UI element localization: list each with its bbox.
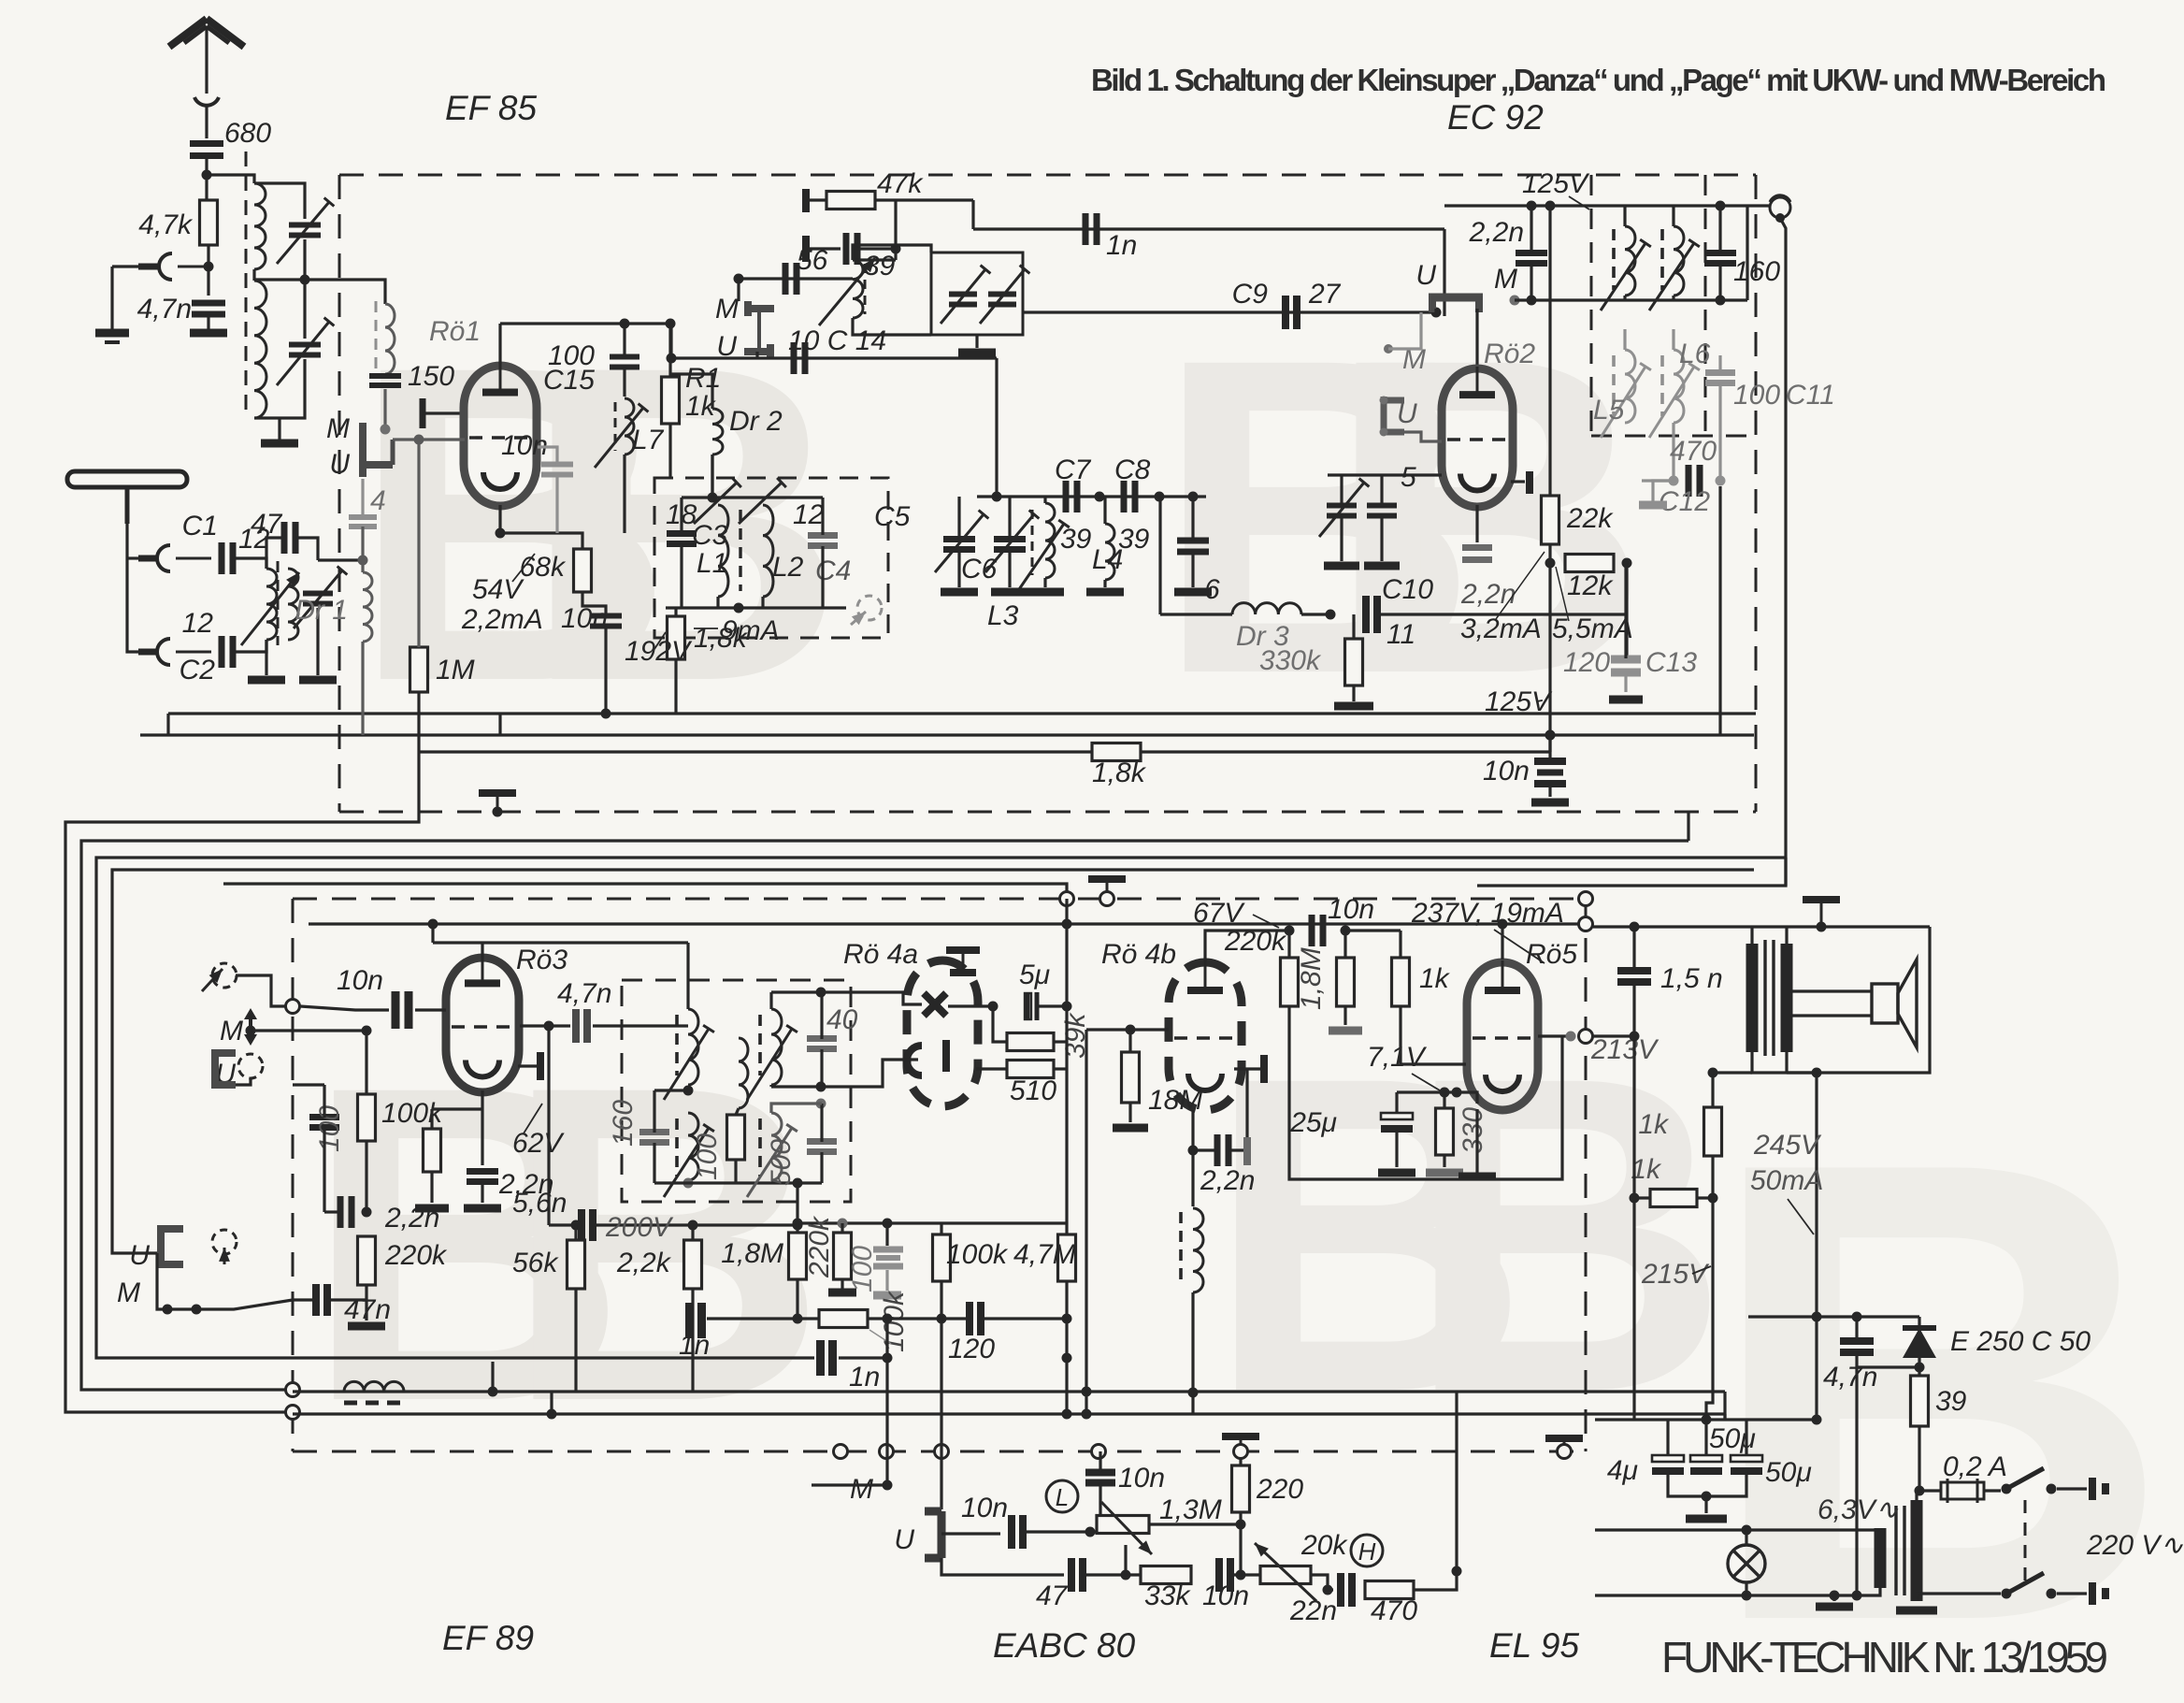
junction screen feed [428,919,438,930]
ground 10n psu [1531,799,1569,807]
resistor 33k [1141,1566,1191,1584]
wire cap5 up [1380,475,1383,505]
svg-text:Bild 1. Schaltung der Kleinsup: Bild 1. Schaltung der Kleinsuper „Danza“… [1091,63,2106,97]
wire fuse right [1984,1489,2001,1492]
wire M lower [157,1253,293,1309]
heater rail with 1,8k [419,750,1550,753]
resistor 1M grid leak [410,647,428,692]
resistor 100 IF2 [727,1115,745,1160]
tube Roe3 EF89 [446,956,519,1092]
wire res100 IF2 bottom [734,1160,737,1183]
junction lamp return [1742,1591,1752,1601]
junction cap bank gnd [1702,1492,1712,1502]
M U band contact [363,423,393,477]
IF coil core dashed upper right [1660,229,1664,290]
ground osc grid cap [1324,562,1359,570]
wire cap160 bottom [1718,264,1721,300]
terminal bottom f [1558,1445,1572,1459]
capacitor 10n tone [1219,1558,1230,1592]
junction 1,5n bottom [1630,1032,1640,1042]
svg-text:510: 510 [1010,1075,1056,1106]
wire 1,8M top [1343,931,1346,958]
capacitor 47n [316,1284,327,1316]
pointer 3,2mA [1496,552,1545,619]
chassis tie above transformer [1803,900,1840,926]
jack dashed circle upper [212,963,237,988]
junction fuse node [1915,1486,1925,1496]
connector arc C1 [138,545,211,571]
wire 50u b stub [1745,1420,1747,1455]
Roe4b cath coil feed [1191,1110,1194,1206]
wire grid2 bar to tube [423,411,465,414]
svg-text:C2: C2 [180,655,216,686]
wire 56k bottom [574,1289,577,1392]
tone feedback up [1455,1414,1458,1571]
trimmer arrow upper [277,197,334,264]
svg-text:20k: 20k [1300,1530,1348,1561]
wire C12 left stub [1642,479,1674,482]
IF2 coil lower [688,1113,698,1180]
wire 56 line [739,277,853,280]
capacitor 160 [1704,253,1736,264]
svg-text:4,7n: 4,7n [557,978,611,1009]
svg-text:120: 120 [948,1334,995,1364]
wire 5,6n left [549,1223,582,1226]
osc trimmer arrow A [941,266,990,324]
svg-text:200V: 200V [605,1212,674,1243]
heater long rail [293,1412,1725,1415]
junction tone a [1121,1570,1131,1580]
svg-text:470: 470 [1371,1595,1417,1626]
HT rail to transformer [1593,925,1930,928]
capacitor 40 [807,1039,837,1049]
svg-text:12k: 12k [1567,570,1614,601]
junction 1k b left [1630,1193,1640,1204]
wire coil top to varcap [254,183,305,219]
resistor 4,7k [200,200,218,245]
terminal top edge a [1060,892,1074,906]
terminal bottom a [834,1445,848,1459]
wire grid M link [737,279,740,301]
junction HT transformer [1817,922,1827,932]
arrow L1 [694,478,741,524]
wire U audio to 10n [941,1532,1000,1535]
wire 68k bottom [582,592,606,615]
svg-text:56k: 56k [512,1248,559,1278]
capacitor 25u [1381,1113,1413,1129]
IF coil core dashed lower right [1660,355,1664,416]
junction 1M grid [414,435,424,445]
wire rail link b [166,714,169,735]
IF2 coil upper [688,1009,698,1085]
resistor 47k [826,192,875,209]
wire 510 left [976,1067,1007,1070]
AGC rail [140,733,1754,736]
junction C7 C8 [1095,492,1105,502]
svg-text:9mA: 9mA [722,615,780,646]
junction pot right [1236,1520,1246,1530]
capacitor 5u [1027,992,1037,1020]
wire connector to ground left [112,265,138,267]
junction Roe5 anode [1498,919,1508,930]
junction 2,2k top [688,1220,698,1231]
svg-text:1,3M: 1,3M [1159,1494,1222,1525]
IF can dashed borders [1591,175,1756,436]
junction M rail 3 [1716,296,1726,306]
osc trimmer arrow B [980,266,1029,324]
wire 1n rail corner [971,200,974,229]
wire cap500 bottom [820,1152,823,1183]
pointer 9mA [694,628,718,629]
oscillator coil [853,260,863,318]
wire switch upper out [2057,1487,2087,1490]
wire to Dr3 [1160,613,1232,615]
wire IF2 coil RU top [769,992,772,1009]
wire L6 bottom [1672,423,1674,481]
wire 100 det top [885,1223,888,1246]
wire 47n right [327,1298,366,1301]
wire C12 gnd stub [1653,481,1674,501]
svg-text:68k: 68k [520,552,567,583]
125V anode rail [1444,204,1747,207]
junction det mid [883,1314,893,1324]
svg-text:220k: 220k [804,1215,835,1278]
wire cap40 top [820,992,823,1039]
wire IF coil UL bottom [1623,296,1626,300]
capacitor 10n Roe4b [1312,915,1323,946]
wire link down to C14 wire [755,352,758,358]
junction heater return [1830,1591,1840,1601]
wire node down to cap 4,7n [207,267,209,296]
svg-text:5: 5 [1401,462,1416,493]
IF2 coupling coil [739,1038,748,1108]
wire cap40 bottom [820,1049,823,1087]
wire 220k anode bottom [1287,1006,1290,1057]
wire varcap lower to coil bottom [254,359,305,418]
trimmer arrow MW input [294,567,347,628]
wire cap100 top [323,1085,325,1118]
ground 18M [1113,1124,1148,1133]
svg-text:Rö 4a: Rö 4a [843,939,918,970]
wire 1,8M det top [796,1223,798,1233]
wire diode bottom [1918,1358,1920,1375]
wire anode Roe1 up [498,324,501,364]
wire C15 top [623,324,625,356]
wire 330 top [1443,1092,1445,1108]
junction Roe4a out [988,1002,999,1012]
capacitor C3 18 [667,534,697,544]
svg-text:1,8M: 1,8M [1296,947,1327,1010]
coil L1 [718,505,728,597]
junction 1k b right [1708,1193,1718,1204]
junction IF2 mid [683,1086,694,1096]
IF coil core dashed lower left [1612,355,1616,416]
svg-text:10n: 10n [1483,756,1530,787]
switch contact lower [2047,1589,2057,1599]
capacitor 56 [785,263,797,295]
U input bracket [215,1049,236,1089]
capacitor C2 12 [222,636,233,668]
wire 220k bottom [365,1285,367,1321]
svg-text:12: 12 [793,499,825,530]
wire pot right [1149,1523,1241,1525]
svg-text:U: U [129,1240,150,1271]
svg-text:470: 470 [1670,436,1717,467]
core dashed MW coil [277,561,280,645]
wire MW cap down [316,608,319,675]
svg-text:100k: 100k [946,1239,1009,1270]
resistor 2,2k [684,1240,702,1289]
wire C11 top [1718,355,1721,372]
Roe2 cathode stem [1475,505,1478,542]
svg-text:2,2n: 2,2n [1460,579,1516,610]
ground C13 [1609,696,1643,704]
svg-text:H: H [1358,1537,1376,1566]
wire 1,8k anode top [674,608,677,616]
jack arrow upper [202,969,223,991]
svg-text:220k: 220k [1224,926,1287,957]
svg-text:L1: L1 [697,548,727,579]
wire bar to 47k [810,198,826,201]
capacitor 2,2n cathode Roe2 [1462,548,1492,560]
wire 220 bottom [1239,1513,1242,1524]
junction 56 line [734,274,744,284]
capacitor 10n psu [1534,758,1566,765]
M U link contact mixer [744,301,774,359]
IF2 core dashed right lower [758,1118,762,1176]
ground MW coil [248,676,285,685]
svg-text:1k: 1k [1638,1109,1670,1140]
capacitor 680 [190,144,223,156]
resistor 510 [1007,1061,1054,1078]
wire lamp top [1745,1530,1747,1545]
wire U jack link [236,1078,251,1085]
wire 2,2n Roe4b left [1193,1148,1217,1151]
terminal B+ right [1579,917,1593,931]
jack dashed circle lower [212,1230,237,1254]
wire 2,2k top [691,1225,694,1240]
coil MW antenna secondary [288,569,298,640]
capacitor C13 120 [1611,659,1641,672]
ground heater return [1816,1603,1853,1611]
svg-text:L: L [1056,1483,1069,1511]
wire 1k a bottom [1711,1156,1714,1198]
resistor 220 [1232,1465,1250,1512]
wire MW tank to box [318,558,363,561]
wire 1,5n top [1632,927,1635,971]
wire Roe2 cathode [1511,480,1525,483]
tube Roe4b EABC80 triode [1169,960,1242,1110]
wire IF2 exit contd [797,1221,1067,1224]
wire diode top [1918,1317,1920,1328]
wire Dr3 to junction [1301,613,1330,615]
125V feed to lower area [1687,812,1689,841]
svg-text:192V: 192V [625,636,693,667]
B+ drop from transformer [1815,1073,1818,1317]
jack dashed circle mid [238,1054,263,1078]
svg-text:125V: 125V [1522,168,1590,199]
IF coil arrow lower right [1649,363,1700,438]
wire 18M bottom [1128,1103,1131,1122]
resistor 39k [1007,1033,1054,1051]
wire bar39 stub [810,247,841,250]
anode rail Roe3 [433,941,688,944]
wire L4 bottom [1103,580,1106,587]
chassis tie Roe4a [946,950,980,958]
svg-text:27: 27 [1308,279,1342,310]
wire C15 to L7 [623,368,625,397]
potentiometer 1,3M volume [1097,1516,1149,1534]
svg-text:62V: 62V [512,1128,565,1159]
resistor 68k [574,549,592,592]
wire C11 bottom [1718,383,1721,481]
wire 22k bottom [1548,544,1551,752]
wire 1,8M bottom [1343,1006,1346,1025]
svg-text:10n: 10n [337,965,383,996]
wire M to grid line [251,1029,366,1032]
capacitor 150 [369,376,401,385]
wire cap 680 to junction [205,157,208,200]
osc coil core lower [1179,1212,1183,1287]
wire C4 bottom [821,546,824,608]
left feed line 1 [65,812,419,1412]
wire 330 bottom [1443,1155,1445,1167]
C12 column down [1718,486,1721,735]
resistor 330 [1436,1108,1454,1155]
svg-text:237V, 19mA: 237V, 19mA [1411,898,1564,929]
terminal bottom e [1234,1445,1248,1459]
junction 1n ratio [793,1314,803,1324]
ground L3 [1027,588,1064,597]
wire heater winding bottom [1834,1588,1880,1595]
variable capacitor C5 [943,540,975,550]
svg-text:33k: 33k [1144,1580,1191,1611]
pointer 192V [654,632,666,649]
trimmer arrow lower [277,318,334,385]
svg-text:4,7k: 4,7k [138,209,194,240]
213V rail down [1632,1036,1635,1198]
junction 1k a top [1708,1068,1718,1078]
resistor 1,8k rail [1092,743,1141,761]
wire 39 to corner [857,247,896,250]
left feed line 3 [96,858,1786,1358]
wire 5,6n right [595,1223,711,1226]
svg-text:C4: C4 [815,556,851,586]
svg-text:M: M [850,1474,873,1505]
dot M input [246,1026,256,1036]
wire 1n left [720,1356,814,1359]
IF2 arrow right upper [747,1025,797,1100]
ground under 4,7n [190,329,227,338]
wire rail link a [417,735,420,812]
rail riser right a [1723,1392,1726,1420]
svg-text:150: 150 [408,361,454,392]
svg-text:2,2mA: 2,2mA [461,604,543,635]
wire M rail Roe2 [1515,298,1747,301]
39k feed down [1065,924,1068,1006]
svg-text:Rö3: Rö3 [516,945,568,975]
power transformer primary [1911,1500,1923,1601]
anode drop to IF can [686,943,689,1009]
terminal bottom c [935,1445,949,1459]
svg-text:1,5 n: 1,5 n [1660,963,1723,994]
anode stem Roe3 [481,943,483,958]
svg-text:1M: 1M [436,655,475,686]
IF coil lower right [1674,350,1684,423]
junction 12k right [1622,558,1632,569]
capacitor 500 [807,1142,837,1152]
junction det rail [1062,1409,1072,1420]
IF2 core dashed lower [675,1118,679,1176]
svg-text:L5: L5 [1593,395,1625,426]
svg-text:5,5mA: 5,5mA [1552,613,1633,644]
AVC long rail [293,1390,1725,1393]
terminal left edge grid [286,1000,300,1014]
ground 330k [1334,702,1373,711]
terminal top edge right [1579,892,1593,906]
svg-text:Rö2: Rö2 [1484,339,1535,369]
svg-text:Dr 2: Dr 2 [729,406,783,437]
resistor 56k [568,1240,585,1289]
tuning arrow MW coil [241,572,299,645]
junction tank top [708,493,718,503]
wire L6 top [1672,329,1674,350]
wire 20k right [1311,1575,1333,1590]
junction B+ takeoff [1812,1068,1822,1078]
svg-text:2,2n: 2,2n [1469,217,1524,248]
tube Roe4a EABC80 [907,960,978,1106]
wire 220k det bottom [841,1279,843,1289]
tone pot arrow [1255,1543,1316,1601]
junction IF2 bottom [683,1178,694,1189]
Roe3 cathode bar [537,1052,544,1080]
capacitor 22n [1341,1573,1352,1607]
vertical link anode to C14 [669,324,672,358]
lamp return rail [1595,1594,1834,1596]
wire 10n cathode to rail [604,627,607,714]
capacitor 5 [1367,506,1397,516]
junction rail 1658 [1545,730,1556,741]
C9 grid line [1023,310,1436,313]
svg-text:47k: 47k [877,168,924,199]
variable capacitor osc A [949,295,977,305]
wire resistor to node [207,245,209,267]
U band link Roe2 [1429,297,1483,312]
ground C6 [991,588,1028,597]
terminal bottom d [1092,1445,1106,1459]
wire cap 6 top [1191,497,1194,541]
Roe4b cathode arc [1188,1074,1222,1090]
wire 68k top [561,533,582,549]
junction dashed chassis [493,807,503,817]
svg-text:L2: L2 [772,552,804,583]
junction R1 C14 [667,354,677,364]
wire R1 bottom to tank [668,424,671,479]
svg-text:U: U [1415,260,1436,291]
svg-text:160: 160 [1733,256,1780,287]
wire 1k a top [1711,1073,1714,1107]
choke Dr2 [712,409,723,455]
wire L1 bottom [716,597,719,608]
svg-text:L7: L7 [632,425,665,455]
wire 1,5n bottom [1632,982,1635,1036]
wire cap100 bottom [323,1128,325,1212]
resistor 220k det [834,1233,852,1279]
capacitor C11 100 [1705,373,1735,383]
svg-text:7,1V: 7,1V [1367,1042,1428,1073]
Roe3 cathode down [481,1090,483,1165]
wire L4 top [1103,497,1106,524]
